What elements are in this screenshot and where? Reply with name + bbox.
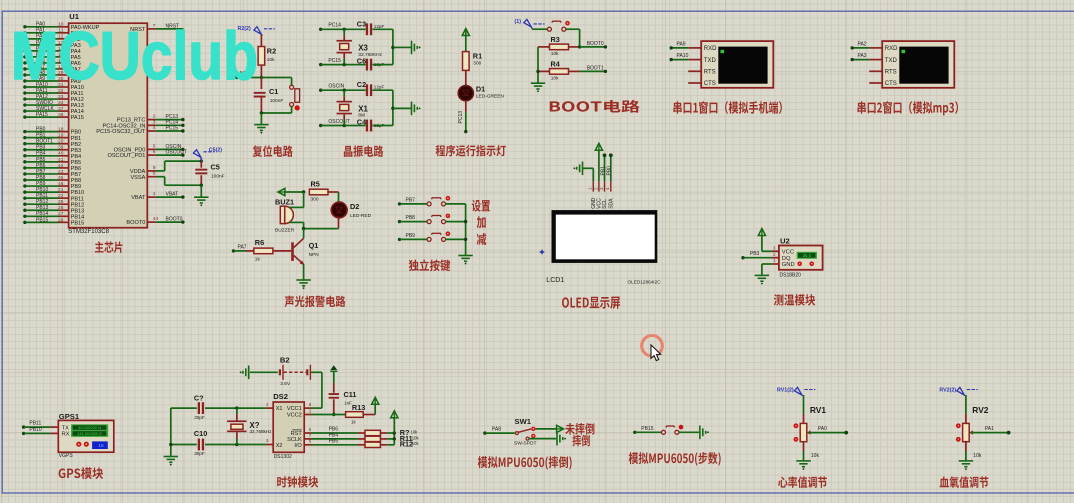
svg-text:100nF: 100nF [211, 174, 225, 180]
svg-text:C?: C? [194, 394, 204, 403]
U2 pin GND (1) [772, 263, 779, 265]
power arrow (SW1) [557, 425, 564, 432]
node NRST junction [260, 76, 263, 79]
resistor R12 (pullup) [358, 444, 365, 446]
svg-text:I/O: I/O [294, 443, 302, 449]
wire OLED SCL [604, 156, 606, 181]
main chip U1 body [69, 23, 148, 228]
pin PB12 (left, 25) [23, 203, 26, 206]
wire SW1 down contact [529, 438, 556, 440]
svg-text:PB5: PB5 [329, 438, 339, 444]
marker (OLED origin) [539, 249, 545, 255]
ground (C5) [194, 196, 208, 198]
pin PB2 (left, 20) [23, 142, 26, 145]
pin PB3 (left, 39) [23, 148, 26, 151]
svg-text:8: 8 [153, 171, 156, 177]
svg-text:C1: C1 [269, 87, 278, 96]
svg-text:PA3: PA3 [858, 53, 867, 59]
ground (Q1) [296, 279, 310, 281]
resistor R2 [260, 34, 262, 46]
svg-text:D1: D1 [476, 85, 485, 94]
svg-text:OSCOUT: OSCOUT [328, 119, 349, 125]
svg-text:PB15: PB15 [71, 220, 85, 226]
node R5 left [302, 190, 305, 193]
wire U2 GND [762, 263, 772, 265]
power flag (C11) [330, 370, 337, 372]
wire C1 to ground [260, 113, 262, 124]
pin PA7 (left, 17) [23, 67, 26, 70]
ground (OLED) [582, 162, 584, 176]
transistor Q1 (NPN) [303, 229, 305, 239]
svg-text:GND: GND [782, 262, 795, 268]
pin PB4 (left, 40) [23, 154, 26, 157]
ground (buttons) [458, 255, 472, 257]
svg-text:3.6V: 3.6V [280, 381, 291, 387]
pin PB9 (left, 46) [23, 184, 26, 187]
pin PB11 (left, 22) [23, 196, 26, 199]
svg-text:12pF: 12pF [374, 24, 385, 29]
svg-text:22: 22 [58, 193, 64, 199]
power arrow (OLED VCC) [595, 143, 602, 150]
svg-text:300: 300 [473, 60, 481, 66]
svg-text:C3: C3 [357, 19, 366, 28]
svg-text:PC13: PC13 [458, 111, 464, 124]
pin PA9 (left, 30) [23, 79, 26, 82]
wire SW1 up contact [536, 428, 557, 430]
svg-text:PA0: PA0 [818, 426, 827, 432]
wire PB11 [22, 425, 25, 428]
svg-text:PB8: PB8 [406, 215, 416, 221]
label 独立按键 [409, 259, 451, 271]
svg-text:RV1: RV1 [810, 405, 826, 415]
wire C5 to ground [200, 185, 202, 196]
mouse cursor [651, 345, 661, 361]
svg-text:PB0: PB0 [607, 166, 613, 176]
svg-text:RTS: RTS [704, 70, 716, 76]
svg-text:16: 16 [98, 443, 104, 449]
svg-text:C4: C4 [357, 118, 367, 127]
svg-text:RX: RX [62, 432, 70, 438]
svg-text:30pF: 30pF [194, 415, 205, 420]
label 程序运行指示灯 [436, 145, 506, 157]
wire SCLK [312, 438, 358, 440]
svg-text:PC14: PC14 [328, 23, 341, 29]
wire left rail [537, 47, 539, 83]
svg-text:C6: C6 [357, 57, 366, 66]
label 模拟MPU6050(步数) [629, 452, 721, 465]
svg-text:PA7: PA7 [238, 244, 247, 250]
svg-text:STM32F103C8: STM32F103C8 [68, 229, 109, 235]
svg-text:R5: R5 [311, 179, 320, 188]
pin PC14-OSC32_IN (3) [147, 124, 156, 126]
svg-text:B2: B2 [280, 356, 290, 365]
probe C5(2) [193, 150, 201, 158]
svg-text:LCD1: LCD1 [546, 277, 564, 284]
svg-text:33: 33 [58, 94, 64, 100]
wire buzzer top [303, 192, 305, 207]
ground (reset) [254, 124, 268, 126]
wire OLED GND [592, 168, 594, 181]
OLED display LCD1 [552, 210, 658, 263]
svg-text:VSSA: VSSA [130, 175, 145, 181]
svg-text:VBAT: VBAT [131, 195, 146, 201]
U2 display [797, 252, 817, 259]
GPS buttons [76, 442, 81, 447]
button PB8 [398, 220, 401, 223]
pin PB7 (left, 43) [23, 172, 26, 175]
pin VBAT (1) [147, 196, 156, 198]
DS2 pin RST (5) [304, 432, 311, 434]
label 声光报警电路 [285, 296, 346, 308]
ground (BOOT) [531, 82, 545, 84]
label GPS模块 [59, 467, 104, 479]
svg-text:8M: 8M [358, 113, 365, 119]
pin PA14 (left, 37) [23, 109, 26, 112]
svg-text:VCC2: VCC2 [287, 413, 302, 419]
pin PB15 (left, 28) [23, 221, 26, 224]
svg-text:X2: X2 [276, 443, 283, 449]
pin VSSA (8) [147, 176, 156, 178]
svg-text:U2: U2 [780, 237, 790, 246]
LED D1 (LED-GREEN) [458, 86, 473, 101]
LED D2 (LED-RED) [331, 202, 347, 218]
svg-text:RTS: RTS [885, 70, 897, 76]
svg-text:25: 25 [58, 199, 64, 205]
DS2 pin I/O (6) [304, 444, 311, 446]
svg-text:BUZZER: BUZZER [275, 228, 295, 234]
DS2 pin X1 (2) [266, 407, 273, 409]
svg-text:PA15: PA15 [36, 112, 48, 118]
buttons right rail [465, 204, 467, 255]
svg-text:DS1302: DS1302 [274, 454, 292, 460]
svg-text:19: 19 [58, 133, 64, 139]
crystal X? [235, 406, 238, 409]
crystal X1 block (8M): C2,C4 [319, 89, 322, 92]
pin PA2 (left, 12) [23, 37, 26, 40]
pin VDDA (9) [147, 170, 156, 172]
svg-text:RXD: RXD [885, 46, 898, 52]
wire D1 to PC13 [465, 101, 467, 112]
left rail + ground (clock) [170, 408, 172, 456]
svg-text:OLED12864I2C: OLED12864I2C [628, 280, 662, 285]
step button [633, 431, 636, 434]
svg-text:SDA: SDA [609, 198, 615, 209]
svg-text:26: 26 [58, 205, 64, 211]
wire PB10 [22, 432, 25, 435]
ground (SW1) [556, 432, 558, 446]
svg-text:46: 46 [58, 181, 64, 187]
boot button [532, 28, 547, 30]
resistor R11 (pullup) [358, 438, 365, 440]
clock chip DS2 box [273, 402, 304, 452]
svg-text:PC15: PC15 [328, 58, 341, 64]
wire OLED SDA [610, 156, 612, 181]
svg-text:43: 43 [58, 169, 64, 175]
svg-text:NPN: NPN [309, 252, 320, 258]
resistor R6 [232, 249, 235, 252]
DS2 pin VCC1 (8) [304, 407, 311, 409]
svg-text:PB7: PB7 [406, 197, 416, 203]
svg-text:PA10: PA10 [677, 53, 689, 59]
svg-text:44: 44 [153, 216, 159, 222]
power arrow (R13) [372, 397, 379, 404]
svg-text:37: 37 [58, 106, 64, 112]
svg-text:R13: R13 [352, 403, 365, 412]
resistor R4 [538, 70, 550, 72]
svg-text:(1): (1) [515, 19, 522, 25]
OLED pin SDA (4) [610, 181, 612, 191]
GPS pin TX [50, 426, 58, 428]
cursor highlight circle [642, 336, 663, 357]
pin PB14 (left, 27) [23, 215, 26, 218]
svg-text:Q1: Q1 [309, 241, 319, 250]
svg-text:PA8: PA8 [492, 427, 501, 433]
svg-text:12pF: 12pF [374, 85, 385, 90]
svg-text:21: 21 [58, 187, 64, 193]
capacitor C11 [333, 372, 335, 383]
svg-text:PB9: PB9 [406, 233, 416, 239]
svg-text:40: 40 [58, 151, 64, 157]
label 测温模块 [774, 294, 815, 305]
power arrow (R1) [462, 29, 469, 36]
svg-text:28: 28 [58, 217, 64, 223]
svg-text:LED-GREEN: LED-GREEN [476, 93, 505, 99]
svg-text:27: 27 [58, 211, 64, 217]
power arrow (R5) [278, 188, 285, 195]
crystal X3 block (32.768KHz): C3,C6 [319, 28, 322, 31]
svg-text:RV2(2): RV2(2) [939, 388, 956, 394]
svg-text:R6: R6 [255, 238, 264, 247]
svg-text:39: 39 [58, 145, 64, 151]
U2 buttons [797, 262, 802, 267]
svg-text:PA9: PA9 [677, 42, 686, 48]
pin PA8 (left, 29) [23, 73, 26, 76]
svg-text:45.000000 N: 45.000000 N [78, 425, 101, 430]
DS2 pin SCLK (7) [304, 438, 311, 440]
resistor R3 [538, 46, 550, 48]
svg-text:C5(2): C5(2) [209, 147, 222, 153]
svg-text:38: 38 [58, 112, 64, 118]
svg-text:C5: C5 [211, 163, 220, 172]
svg-text:10k: 10k [267, 57, 275, 63]
pin PA13 (left, 34) [23, 103, 26, 106]
DS2 pin VCC2 (1) [304, 414, 311, 416]
pin PB0 (left, 18) [23, 130, 26, 133]
svg-text:C11: C11 [344, 390, 357, 399]
svg-text:VCC: VCC [782, 250, 794, 256]
ground (step) [699, 426, 701, 440]
svg-text:1k: 1k [255, 257, 261, 263]
pin PB6 (left, 42) [23, 166, 26, 169]
svg-text:34: 34 [58, 100, 64, 106]
svg-text:CTS: CTS [885, 81, 897, 87]
resistor R13 [346, 412, 364, 418]
capacitor C5 [200, 159, 203, 162]
svg-text:9: 9 [153, 165, 156, 171]
U2 pin DQ (2) [772, 257, 779, 259]
svg-text:RV1(2): RV1(2) [777, 388, 794, 394]
svg-text:PB1: PB1 [600, 166, 606, 176]
potentiometer RV2 [957, 387, 965, 395]
wire button to C1 [261, 112, 291, 114]
pin OSCIN_PD0 (5) [147, 148, 156, 150]
GPS displays [71, 424, 108, 437]
label 减 [477, 233, 487, 245]
pin PA1 (left, 11) [23, 31, 26, 34]
svg-text:TXD: TXD [885, 58, 898, 64]
wire B2 to VCC1 [311, 371, 322, 373]
svg-text:141.000000 E: 141.000000 E [77, 431, 102, 436]
svg-text:BOOT0: BOOT0 [166, 217, 183, 223]
temp module U2 box [779, 246, 823, 270]
svg-text:PB10: PB10 [29, 427, 41, 433]
svg-text:45: 45 [58, 175, 64, 181]
reset button [290, 85, 294, 89]
svg-text:VBAT: VBAT [166, 192, 179, 198]
svg-text:X1: X1 [276, 406, 283, 412]
label 时钟模块 [277, 476, 318, 487]
svg-text:TXD: TXD [704, 58, 717, 64]
svg-text:RXD: RXD [704, 46, 717, 52]
GPS pin RX [50, 432, 58, 434]
pin PB8 (left, 45) [23, 178, 26, 181]
svg-text:32.768KHz: 32.768KHz [358, 52, 382, 58]
svg-text:10k: 10k [973, 453, 982, 459]
svg-text:RV2: RV2 [972, 405, 988, 415]
svg-text:PA2: PA2 [858, 42, 867, 48]
svg-text:BOOT0: BOOT0 [587, 41, 604, 47]
wire VCC2 row [312, 414, 346, 416]
pin PB13 (left, 26) [23, 209, 26, 212]
resistor R? (pullup) [358, 432, 365, 434]
potentiometer RV1 [794, 387, 802, 395]
svg-text:300: 300 [311, 196, 319, 202]
svg-text:2: 2 [153, 114, 156, 120]
resistor R5 [309, 189, 328, 195]
wire X2 row [237, 444, 266, 446]
pin OSCOUT_PD1 (6) [147, 154, 156, 156]
svg-text:X3: X3 [358, 43, 368, 52]
pin PA3 (left, 13) [23, 43, 26, 46]
label BOOT电路 [550, 100, 640, 113]
wire to button [261, 77, 291, 79]
pullup rail [393, 433, 395, 445]
svg-text:10k: 10k [811, 453, 820, 459]
label 主芯片 [95, 241, 123, 253]
ground (U2) [755, 274, 769, 276]
svg-text:R2: R2 [267, 47, 276, 56]
OLED pin GND (1) [592, 181, 594, 191]
DS2 pin X2 (3) [266, 444, 273, 446]
wire I/O [312, 444, 358, 446]
svg-text:R3: R3 [551, 35, 560, 44]
svg-text:X1: X1 [358, 104, 368, 113]
svg-text:R1: R1 [473, 51, 482, 60]
svg-text:OSCIN: OSCIN [328, 84, 344, 90]
pin PA11 (left, 32) [23, 91, 26, 94]
svg-text:BUZ1: BUZ1 [275, 198, 294, 207]
svg-text:4: 4 [153, 125, 156, 131]
svg-text:3: 3 [153, 119, 156, 125]
svg-text:1k: 1k [351, 420, 356, 425]
button PB9 [398, 238, 401, 241]
svg-text:PB11: PB11 [29, 421, 41, 427]
svg-text:1nF: 1nF [344, 400, 352, 405]
ground (clock) [164, 456, 178, 458]
resistor R1 [463, 52, 470, 71]
svg-text:CTS: CTS [704, 81, 716, 87]
svg-text:TX: TX [62, 425, 70, 431]
OLED pin SCL (3) [604, 181, 606, 191]
wire U2 DQ [741, 256, 744, 259]
button PB7 [398, 202, 401, 205]
svg-text:20: 20 [58, 139, 64, 145]
svg-text:BOOT0: BOOT0 [126, 220, 145, 226]
svg-text:MCUclub: MCUclub [11, 18, 258, 94]
svg-text:18: 18 [58, 127, 64, 133]
svg-text:32.768kHz: 32.768kHz [250, 429, 273, 434]
svg-text:OSCOUT_PD1: OSCOUT_PD1 [107, 153, 145, 159]
svg-text:C10: C10 [194, 429, 207, 438]
pin NRST (7) [147, 28, 156, 30]
pin PB10 (left, 21) [23, 190, 26, 193]
wire NRST stub [237, 77, 261, 79]
svg-text:10k: 10k [412, 441, 420, 446]
pin PC15-OSC32_OUT (4) [147, 130, 156, 132]
pin PA5 (left, 15) [23, 55, 26, 58]
svg-text:R4: R4 [551, 60, 561, 69]
OLED pin VCC (2) [598, 181, 600, 191]
svg-text:D2: D2 [350, 202, 359, 211]
svg-text:BOOT1: BOOT1 [587, 66, 604, 72]
wire RST [312, 432, 358, 434]
wire X1 row [237, 407, 266, 409]
svg-text:LED-RED: LED-RED [350, 213, 372, 219]
svg-text:10k: 10k [551, 76, 559, 82]
svg-text:DS2: DS2 [273, 392, 288, 401]
svg-text:PB15: PB15 [641, 426, 653, 432]
serial window 2 (VT2) [882, 41, 954, 88]
svg-text:SCL: SCL [602, 199, 608, 209]
svg-text:SW-SPDT: SW-SPDT [514, 441, 536, 447]
pin PB1 (left, 19) [23, 136, 26, 139]
svg-text:PC15: PC15 [166, 125, 179, 131]
svg-text:42: 42 [58, 163, 64, 169]
pin PC13_RTC (2) [147, 119, 156, 121]
pin PA4 (left, 14) [23, 49, 26, 52]
svg-text:5: 5 [153, 143, 156, 149]
wire buzzer bottom [303, 222, 305, 228]
svg-text:VCC1: VCC1 [287, 406, 302, 412]
ground (battery) [248, 366, 250, 380]
pin PA12 (left, 33) [23, 97, 26, 100]
svg-text:VGPS: VGPS [59, 453, 74, 459]
svg-text:SW1: SW1 [515, 417, 532, 426]
pin PB5 (left, 41) [23, 160, 26, 163]
probe R2(2) [254, 27, 262, 35]
label 设置 [472, 200, 490, 212]
pin BOOT0 (44) [147, 221, 156, 223]
svg-text:30pF: 30pF [194, 451, 205, 456]
label 未摔倒 [565, 423, 594, 435]
label 晶振电路 [344, 145, 384, 157]
svg-text:PA1: PA1 [985, 426, 994, 432]
svg-text:41: 41 [58, 157, 64, 163]
svg-text:DS18B20: DS18B20 [780, 273, 802, 279]
pin PA15 (left, 38) [23, 115, 26, 118]
label 模拟MPU6050(摔倒) [478, 456, 572, 470]
power arrow (pullups) [391, 411, 398, 418]
